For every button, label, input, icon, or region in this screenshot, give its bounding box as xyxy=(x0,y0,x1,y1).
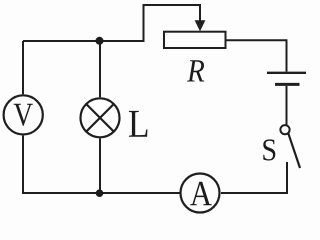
lamp L circle xyxy=(81,98,120,137)
arrow head on rheostat wiper xyxy=(195,20,206,31)
wire jog up to wiper xyxy=(144,5,201,42)
lamp L cross stroke 2 xyxy=(86,104,114,132)
node junction bottom xyxy=(96,189,104,197)
voltmeter V circle xyxy=(4,95,43,134)
wire switch contact to bottom-right corner xyxy=(221,162,287,193)
node junction top xyxy=(96,37,104,45)
wire lamp bottom to bottom junction xyxy=(99,138,101,193)
switch S blade xyxy=(288,133,300,168)
wire top-left horizontal xyxy=(23,40,144,42)
switch S pivot circle xyxy=(280,125,289,134)
label S xyxy=(263,139,275,160)
battery B1 long plate xyxy=(267,72,306,74)
battery B1 short plate xyxy=(275,83,300,86)
lamp L cross stroke 1 xyxy=(86,104,114,132)
ammeter A circle xyxy=(181,174,220,213)
label R xyxy=(187,60,204,81)
wire ammeter to bottom junction and bottom-left corner xyxy=(23,136,180,193)
ammeter letter A xyxy=(190,182,212,206)
rheostat R body xyxy=(164,32,226,48)
label L xyxy=(129,111,148,137)
wire battery bottom to switch xyxy=(286,86,288,125)
wire junction to lamp top xyxy=(99,41,101,97)
wire voltmeter top to top-left corner xyxy=(22,41,24,94)
voltmeter letter V xyxy=(14,104,33,126)
wire rheostat right to battery top xyxy=(225,40,287,71)
